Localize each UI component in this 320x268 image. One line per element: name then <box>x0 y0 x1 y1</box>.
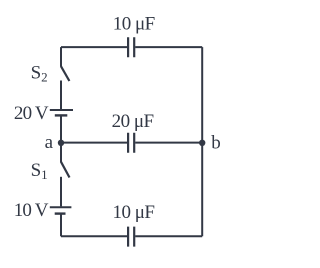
svg-text:10 μF: 10 μF <box>113 13 155 34</box>
svg-text:S2: S2 <box>31 62 48 84</box>
svg-text:20 V: 20 V <box>14 103 49 124</box>
svg-text:b: b <box>211 133 221 154</box>
svg-text:10 μF: 10 μF <box>112 202 154 223</box>
svg-text:a: a <box>45 132 54 153</box>
svg-text:20 μF: 20 μF <box>112 111 154 132</box>
svg-text:S1: S1 <box>31 160 48 182</box>
svg-text:10 V: 10 V <box>14 200 49 221</box>
